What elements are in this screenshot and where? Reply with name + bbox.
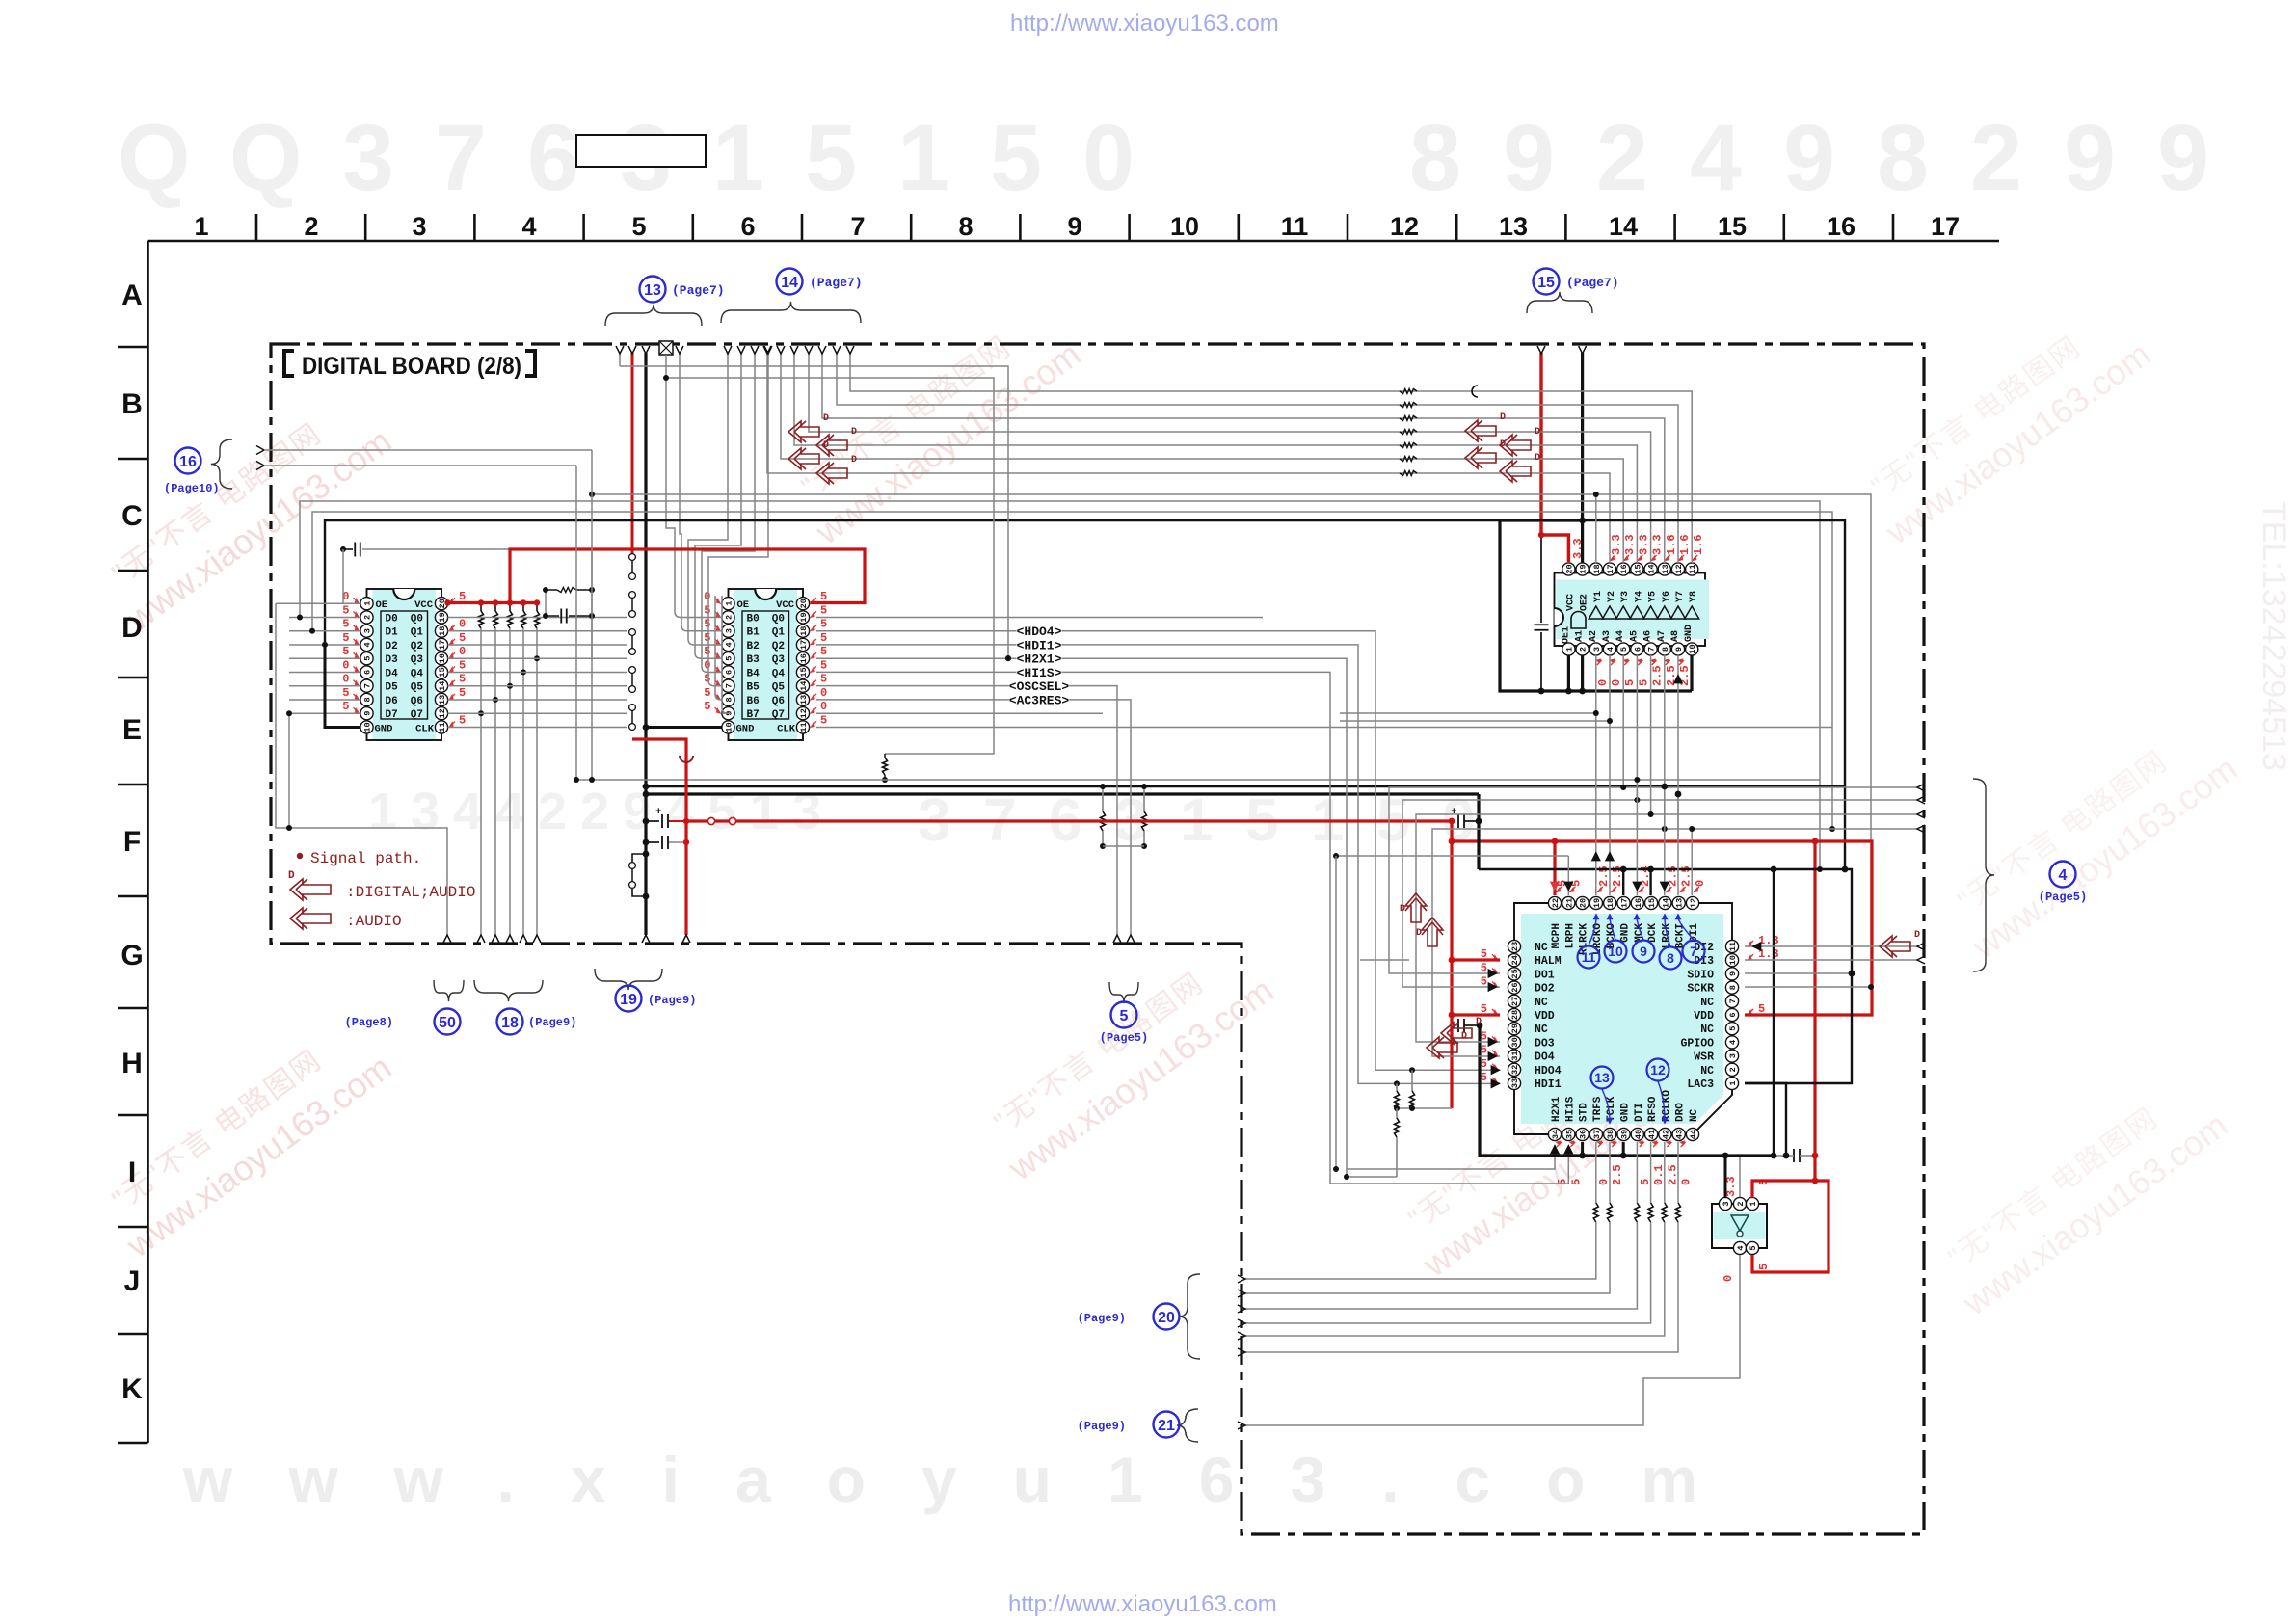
label 16 bundle — [175, 448, 201, 474]
connector jumper chain — [629, 554, 636, 561]
svg-text:LAC3: LAC3 — [1687, 1078, 1714, 1091]
svg-text:13: 13 — [644, 282, 661, 299]
svg-text:OE2: OE2 — [1580, 594, 1590, 611]
svg-text:(Page7): (Page7) — [810, 276, 863, 290]
wire IC101 Q outputs — [448, 616, 627, 618]
svg-text:13: 13 — [799, 695, 809, 705]
wire red VCC IC101 — [448, 601, 538, 604]
svg-text:GND: GND — [1684, 625, 1695, 642]
svg-text:27: 27 — [1510, 997, 1520, 1006]
wire CLK IC102 — [816, 727, 1832, 729]
svg-text:D: D — [1461, 1031, 1467, 1042]
wire 16 w1 — [264, 449, 592, 451]
svg-text:GND: GND — [1620, 1103, 1632, 1122]
svg-text:5: 5 — [342, 700, 349, 713]
svg-text:14: 14 — [781, 275, 798, 291]
svg-text:2: 2 — [1728, 1067, 1738, 1072]
svg-text:42: 42 — [1661, 1130, 1670, 1139]
jumper JW on GND trunk — [632, 854, 646, 862]
svg-text:5: 5 — [363, 656, 373, 661]
svg-text:5: 5 — [1481, 1057, 1487, 1071]
svg-text:19: 19 — [438, 612, 447, 622]
resistor RP1 — [480, 603, 482, 612]
wire black pin15 — [1649, 869, 1651, 895]
signal arrows mid bundle — [788, 421, 819, 442]
wire bottom pin route 6 — [1677, 1142, 1679, 1203]
svg-text:http://www.xiaoyu163.com: http://www.xiaoyu163.com — [1008, 1591, 1277, 1617]
svg-text:<HDO4>: <HDO4> — [1017, 625, 1062, 639]
svg-text:B4: B4 — [747, 668, 761, 679]
svg-text:14: 14 — [438, 681, 447, 691]
svg-text:VDD: VDD — [1694, 1010, 1714, 1023]
net label wire Q2 HDI1 — [816, 645, 1500, 1084]
svg-text:5: 5 — [459, 686, 466, 700]
svg-text:9: 9 — [2157, 105, 2209, 210]
svg-text:0.1: 0.1 — [1652, 1164, 1666, 1185]
svg-text:Q1: Q1 — [772, 627, 786, 639]
svg-text:2: 2 — [1970, 105, 2022, 210]
svg-text:B3: B3 — [747, 654, 761, 666]
svg-text:5: 5 — [725, 656, 734, 661]
svg-text:HDO4: HDO4 — [1535, 1065, 1562, 1078]
svg-text:10: 10 — [725, 722, 734, 732]
svg-text:3: 3 — [1592, 647, 1602, 652]
wire SDIO route — [1745, 972, 1852, 974]
svg-text:SDIO: SDIO — [1687, 969, 1714, 981]
svg-text:13: 13 — [1499, 212, 1528, 241]
svg-text:<HI1S>: <HI1S> — [1017, 666, 1062, 680]
svg-text:8: 8 — [1877, 105, 1929, 210]
svg-text:http://www.xiaoyu163.com: http://www.xiaoyu163.com — [1010, 11, 1279, 37]
svg-text:<H2X1>: <H2X1> — [1017, 652, 1062, 667]
svg-text:(Page5): (Page5) — [1100, 1031, 1148, 1045]
svg-text:14: 14 — [1609, 212, 1638, 241]
svg-text:B6: B6 — [747, 696, 760, 707]
svg-text:7: 7 — [850, 212, 865, 241]
row ruler ticks — [118, 346, 148, 349]
wire red vertical to QFP — [1450, 821, 1453, 1108]
wire jog to v1031 — [666, 378, 994, 754]
wire 14-bundle w3 — [702, 353, 755, 596]
IC201 right pins 11-1 — [1725, 940, 1738, 952]
svg-text:B5: B5 — [747, 682, 761, 694]
svg-text:0: 0 — [342, 673, 349, 686]
svg-text:SCKR: SCKR — [1687, 983, 1714, 996]
wire 15-bundle red vertical to pin20 — [1541, 353, 1568, 562]
svg-text:5: 5 — [820, 618, 827, 631]
svg-text:32: 32 — [1510, 1065, 1520, 1075]
svg-text:Q5: Q5 — [411, 682, 424, 694]
title DIGITAL BOARD (2/8) — [284, 351, 294, 376]
wire bottom pin route 2 — [1609, 1142, 1611, 1203]
svg-text:1: 1 — [1728, 1080, 1738, 1085]
capacitor C on trunk right — [1793, 1149, 1795, 1162]
wire 50 bundle — [276, 603, 447, 935]
svg-text:5: 5 — [1481, 1044, 1487, 1057]
svg-text:4: 4 — [1728, 1040, 1738, 1045]
svg-text:5: 5 — [704, 645, 710, 658]
svg-text:D2: D2 — [386, 641, 398, 652]
svg-text:5: 5 — [1728, 1026, 1738, 1031]
resistor RP5 — [536, 603, 538, 612]
svg-text:1.6: 1.6 — [1665, 534, 1678, 555]
svg-text:20: 20 — [799, 599, 809, 608]
parallel RC between verticals — [546, 589, 557, 591]
svg-text:D: D — [851, 427, 857, 438]
svg-text:6: 6 — [740, 212, 755, 241]
svg-text:18: 18 — [1606, 898, 1615, 908]
wire black pin3 inverter — [1724, 1156, 1727, 1197]
wire bottom pin route 4 — [1650, 1142, 1652, 1203]
wire bus r3 black — [325, 520, 1845, 869]
wire black pair y816 — [646, 785, 1845, 788]
svg-text:HALM: HALM — [1535, 955, 1562, 968]
net name labels — [1017, 624, 1062, 638]
svg-text:21: 21 — [1158, 1418, 1175, 1434]
svg-text:5: 5 — [1481, 1071, 1487, 1084]
label 50 bundle — [434, 980, 464, 1001]
svg-text:A7: A7 — [1657, 630, 1668, 642]
svg-text:STD: STD — [1579, 1103, 1590, 1122]
wire bottom pin route 5 — [1664, 1142, 1666, 1203]
signal arrows up on DO routes — [1405, 893, 1427, 922]
wire bus r2 — [312, 512, 1832, 829]
IC202 inverter body — [1712, 1204, 1767, 1248]
svg-text:2: 2 — [725, 615, 734, 620]
svg-text:14: 14 — [799, 681, 809, 691]
svg-text:13: 13 — [1661, 564, 1670, 573]
svg-text:4: 4 — [1690, 105, 1742, 210]
svg-text:NC: NC — [1535, 1024, 1548, 1036]
wire 16 w2 — [264, 465, 576, 466]
svg-text:5: 5 — [820, 631, 827, 645]
svg-text:2.5: 2.5 — [1651, 665, 1665, 686]
svg-text:DTI: DTI — [1634, 1103, 1645, 1122]
svg-text:A2: A2 — [1589, 630, 1599, 642]
wire 14-bundle w2 — [695, 353, 741, 596]
label 5 bundle — [1109, 982, 1138, 1003]
capacitor C IC103 decoupling — [1540, 535, 1542, 623]
IC202 inverter triangle — [1731, 1215, 1749, 1231]
wire black vertical x1840 to trunk — [1773, 869, 1775, 1156]
svg-text:20: 20 — [1579, 898, 1589, 908]
svg-text:15: 15 — [1537, 275, 1555, 291]
IC201 blue reference circles — [1578, 946, 1600, 969]
wire IC103 outputs to bundle4 — [1622, 655, 1624, 787]
svg-text:Q6: Q6 — [772, 696, 785, 707]
svg-text:3: 3 — [342, 105, 394, 210]
wire vertical v614 — [591, 450, 593, 780]
svg-text:3.3: 3.3 — [1637, 534, 1650, 555]
svg-text:26: 26 — [1510, 982, 1520, 992]
svg-text:9: 9 — [1728, 971, 1738, 976]
wire bus r1 — [300, 501, 1820, 869]
wire net HDO4 — [815, 617, 817, 619]
wire QFP pin21 stub — [1567, 856, 1569, 895]
svg-text:0: 0 — [1596, 679, 1610, 686]
svg-text:D: D — [1476, 1017, 1482, 1027]
svg-text:5: 5 — [1619, 647, 1629, 652]
junction dots left bus — [297, 615, 303, 621]
svg-text:8: 8 — [363, 697, 373, 702]
svg-text:1: 1 — [1564, 647, 1574, 652]
svg-text:11: 11 — [799, 722, 809, 732]
svg-text:A5: A5 — [1629, 630, 1640, 642]
svg-text:Y2: Y2 — [1607, 591, 1617, 602]
svg-text:A: A — [121, 279, 143, 311]
signal arrows into DO3 DO4 — [1441, 1023, 1472, 1044]
svg-text:16: 16 — [799, 653, 809, 663]
net label wire Q6 AC3RES — [816, 700, 1131, 935]
svg-text:OE: OE — [376, 599, 388, 611]
svg-text:NC: NC — [1700, 997, 1714, 1009]
svg-text:9: 9 — [363, 711, 373, 716]
svg-text:A1: A1 — [1575, 630, 1586, 642]
svg-text:+: + — [1451, 807, 1457, 818]
svg-text:(Page9): (Page9) — [1078, 1420, 1126, 1433]
svg-text:TRFS: TRFS — [1592, 1096, 1604, 1122]
resistor below x1449 — [1396, 1108, 1398, 1118]
capacitor C+ electrolytic at GND column — [646, 820, 659, 822]
svg-text:18: 18 — [1592, 564, 1602, 573]
svg-text:15: 15 — [438, 667, 447, 677]
svg-text:2: 2 — [1579, 647, 1589, 652]
wire red horizontal to IC102 — [509, 548, 511, 550]
column ruler line — [148, 240, 2000, 243]
label 21 bundle — [1177, 1409, 1198, 1442]
svg-text:31: 31 — [1510, 1051, 1520, 1060]
svg-text:A3: A3 — [1602, 630, 1613, 642]
svg-text:4: 4 — [1736, 1245, 1746, 1250]
svg-text:B1: B1 — [747, 627, 761, 639]
wire gray y888 — [1336, 855, 1568, 857]
svg-text:24: 24 — [1510, 955, 1520, 965]
svg-text:<HDI1>: <HDI1> — [1017, 638, 1062, 652]
svg-text:Q2: Q2 — [772, 641, 785, 652]
svg-text::AUDIO: :AUDIO — [346, 913, 402, 930]
svg-text:16: 16 — [1827, 212, 1855, 241]
IC103 buffer body — [1555, 573, 1706, 647]
svg-text:RCLKO: RCLKO — [1661, 1090, 1672, 1122]
IC201 QFP body — [1521, 914, 1723, 1124]
svg-text:30: 30 — [1510, 1037, 1520, 1047]
svg-text:(Page9): (Page9) — [528, 1016, 576, 1029]
wire IC103 pin4 left — [1340, 655, 1610, 721]
svg-text:4: 4 — [363, 642, 373, 647]
svg-text:Q5: Q5 — [772, 682, 786, 694]
svg-text:www.xiaoyu163.com: www.xiaoyu163.com — [182, 1444, 1753, 1515]
svg-text:D: D — [851, 455, 857, 466]
svg-text:1.6: 1.6 — [1678, 534, 1692, 555]
svg-text:15: 15 — [1647, 898, 1657, 908]
svg-text:5: 5 — [1569, 1179, 1583, 1185]
svg-text:4: 4 — [453, 783, 482, 840]
svg-text:Q7: Q7 — [411, 709, 423, 721]
svg-text:1: 1 — [363, 601, 373, 606]
svg-text:1: 1 — [1749, 1201, 1758, 1206]
wire 14-bundle horizontal 5 — [850, 353, 1692, 563]
wire vertical v598 — [575, 466, 577, 780]
svg-text:5: 5 — [820, 673, 827, 686]
svg-text:5: 5 — [820, 603, 827, 617]
svg-text:Y8: Y8 — [1689, 591, 1699, 602]
wire Q7 — [816, 712, 1103, 714]
wire IC101 GND black — [366, 727, 368, 729]
svg-text:21: 21 — [1564, 898, 1574, 908]
svg-text:DRO: DRO — [1675, 1103, 1687, 1122]
svg-text:D: D — [1400, 904, 1405, 915]
svg-text:G: G — [120, 940, 143, 971]
svg-text:Y3: Y3 — [1620, 591, 1631, 602]
label 14 bundle — [777, 269, 803, 295]
svg-text:H: H — [121, 1048, 143, 1079]
label 18 bundle — [474, 980, 543, 1001]
svg-text:Q7: Q7 — [772, 709, 785, 721]
svg-text:VCC: VCC — [414, 599, 434, 611]
svg-text:0: 0 — [1082, 105, 1135, 210]
svg-text:11: 11 — [1582, 949, 1596, 965]
wire DI2 route — [1745, 945, 1917, 947]
svg-text:2: 2 — [1736, 1201, 1746, 1206]
svg-text:38: 38 — [1606, 1130, 1615, 1139]
svg-text:Q0: Q0 — [772, 613, 785, 625]
svg-text:15: 15 — [1633, 564, 1642, 573]
svg-text:17: 17 — [438, 640, 447, 650]
wire DO3 route — [1416, 814, 1917, 1042]
svg-text:2.5: 2.5 — [1611, 1164, 1624, 1185]
wire pin4 inverter to bundle 21 — [1245, 1255, 1740, 1425]
svg-text:19: 19 — [1592, 898, 1602, 908]
IC201 left pins 23-33 — [1508, 940, 1520, 952]
svg-text:9: 9 — [1640, 944, 1647, 959]
svg-text:5: 5 — [1757, 1264, 1771, 1270]
svg-text:D: D — [1416, 928, 1422, 939]
wire red MCPH pin22 — [1553, 841, 1556, 895]
svg-text:D: D — [1914, 930, 1920, 941]
svg-text:3: 3 — [725, 628, 734, 633]
wire 13-bundle w3 black GND trunk — [644, 353, 647, 935]
svg-text:6: 6 — [1728, 1012, 1738, 1017]
wire 13-bundle w1 — [619, 353, 621, 366]
IC103 buffer triangles — [1589, 606, 1603, 619]
net label wire Q3 H2X1 — [816, 658, 1555, 1169]
svg-text:17: 17 — [1606, 564, 1615, 573]
svg-text:CLK: CLK — [415, 724, 435, 735]
wire 14-bundle w4 — [708, 353, 768, 596]
svg-text:5: 5 — [342, 631, 349, 645]
svg-text:10: 10 — [1728, 955, 1738, 965]
wire black trunk y1199 — [1480, 1025, 1774, 1156]
svg-text:7: 7 — [363, 683, 373, 688]
svg-text:Q2: Q2 — [411, 641, 423, 652]
IC IC102 left pins 1-10 — [722, 598, 734, 610]
svg-text:Q0: Q0 — [411, 613, 423, 625]
svg-text:A8: A8 — [1670, 630, 1681, 642]
svg-text:Q6: Q6 — [411, 696, 423, 707]
IC103 OE gate symbol — [1571, 612, 1586, 628]
svg-text:18: 18 — [799, 626, 809, 636]
wire IC103 pin18 feed — [1595, 494, 1597, 563]
svg-text:5: 5 — [704, 700, 710, 713]
resistor RP3 — [509, 603, 511, 612]
svg-text:F: F — [123, 826, 141, 858]
svg-text:11: 11 — [438, 722, 447, 732]
svg-text:(Page7): (Page7) — [672, 283, 725, 298]
svg-text:2: 2 — [580, 783, 609, 840]
IC201 top pins 22-12 — [1548, 896, 1561, 909]
svg-text:(Page9): (Page9) — [648, 994, 696, 1007]
svg-text:3: 3 — [1722, 1201, 1731, 1206]
svg-text:3: 3 — [792, 783, 821, 840]
svg-text:5: 5 — [1120, 1008, 1129, 1024]
IC103 top pins 20-11 — [1562, 563, 1575, 575]
wire 15-bundle black vertical to pin19 — [1581, 353, 1584, 563]
svg-text:3.3: 3.3 — [1610, 534, 1623, 555]
wire black STD pin36 — [1581, 1142, 1584, 1156]
svg-text:K: K — [121, 1373, 143, 1405]
svg-text:DCK: DCK — [1647, 923, 1659, 943]
svg-text:12: 12 — [1674, 564, 1684, 573]
column ruler ticks — [255, 214, 258, 241]
svg-text:3: 3 — [363, 628, 373, 633]
net tie box symbol — [659, 341, 673, 355]
wire y1221 — [1347, 1176, 1397, 1178]
svg-text:4: 4 — [2059, 867, 2068, 884]
svg-text:A6: A6 — [1643, 630, 1654, 642]
svg-text:11: 11 — [1688, 564, 1697, 573]
svg-text:1: 1 — [712, 105, 764, 210]
svg-text:5: 5 — [704, 686, 710, 700]
wire QFP pin16 stub — [1636, 780, 1638, 895]
svg-text:5: 5 — [704, 603, 710, 617]
svg-text:0: 0 — [342, 658, 349, 672]
svg-text:40: 40 — [1634, 1130, 1643, 1139]
wire red HALM pin24 — [1452, 958, 1500, 961]
capacitor C+ on +B to black — [1457, 814, 1459, 828]
svg-text:D: D — [121, 612, 143, 644]
svg-text:5: 5 — [820, 658, 827, 672]
svg-text:12: 12 — [799, 708, 809, 718]
wire gray horizontal y809 — [576, 779, 1820, 781]
svg-text:Y7: Y7 — [1675, 591, 1686, 602]
svg-text:29: 29 — [1510, 1024, 1520, 1033]
svg-text:5: 5 — [805, 105, 857, 210]
svg-text:6: 6 — [1633, 647, 1642, 652]
svg-text:D3: D3 — [386, 654, 399, 666]
svg-text:(Page9): (Page9) — [1078, 1312, 1126, 1325]
svg-text:5: 5 — [342, 603, 349, 617]
svg-text:GND: GND — [375, 724, 393, 735]
svg-text:5: 5 — [707, 783, 736, 840]
svg-text:GND: GND — [1620, 923, 1632, 943]
svg-text:5: 5 — [1749, 1245, 1758, 1250]
svg-text:3: 3 — [1728, 1053, 1738, 1058]
svg-text:8: 8 — [1728, 985, 1738, 990]
label 19 bundle — [595, 969, 662, 990]
wire bus gray vertical right — [592, 494, 1871, 987]
svg-text:10: 10 — [363, 722, 373, 732]
wire 14-bundle horizontal 6 — [837, 353, 1678, 563]
svg-text:RFSO: RFSO — [1647, 1096, 1659, 1122]
wire IC101 D feed verticals — [288, 713, 290, 828]
svg-text:D: D — [1535, 427, 1540, 438]
row ruler line — [147, 241, 149, 1443]
wire 13w1 to H2X1 junction — [620, 366, 1008, 658]
board outline dash-dot border — [271, 344, 1924, 1534]
svg-text:DO4: DO4 — [1535, 1051, 1555, 1064]
svg-text:19: 19 — [799, 612, 809, 622]
svg-text:11: 11 — [1281, 212, 1309, 241]
